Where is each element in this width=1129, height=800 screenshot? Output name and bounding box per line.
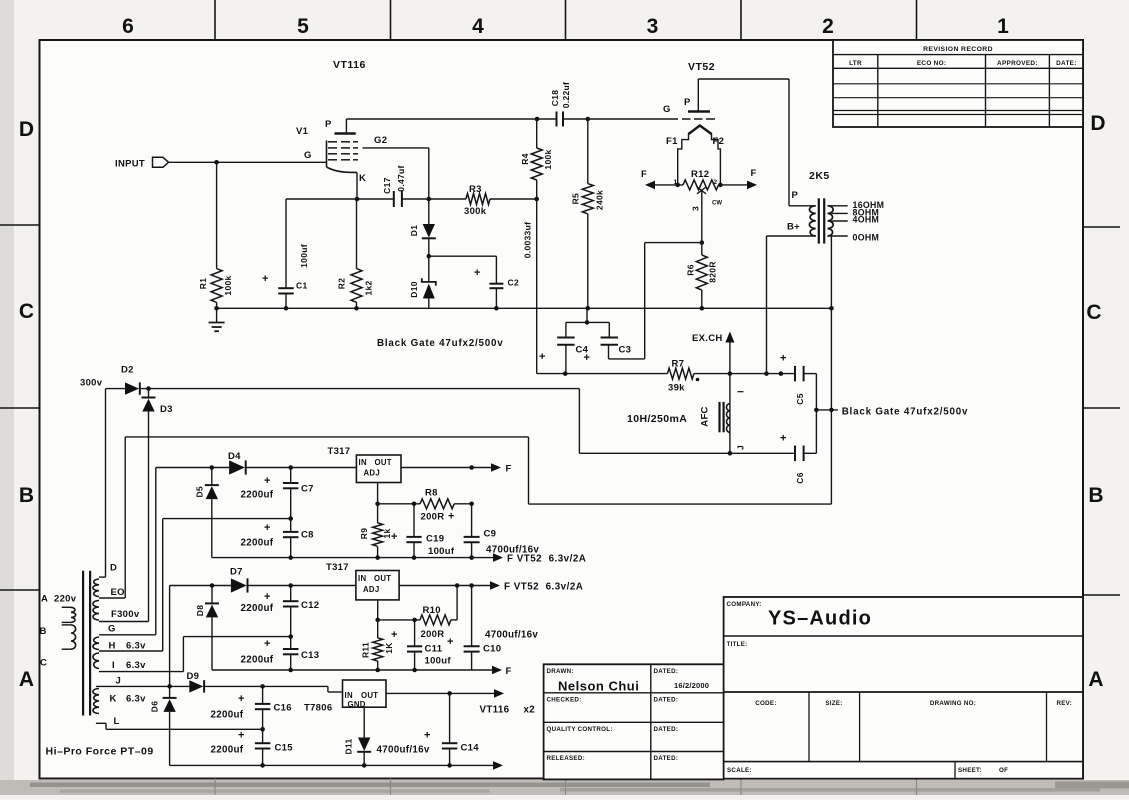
wire row2 bottom	[212, 669, 492, 671]
svg-text:5: 5	[297, 15, 309, 38]
wire D7 to T317 IN	[248, 585, 356, 587]
svg-text:300k: 300k	[464, 206, 487, 217]
tube V1 grid dashes	[328, 141, 337, 143]
svg-text:F: F	[751, 168, 757, 179]
diode D8	[211, 586, 213, 604]
tube VT52 grid dashes	[682, 118, 691, 120]
wire R4 down to B+ node	[536, 199, 538, 374]
wire B+ node y373	[537, 373, 668, 375]
svg-text:100k: 100k	[543, 149, 553, 169]
svg-text:0.22uf: 0.22uf	[561, 82, 571, 108]
svg-text:F: F	[506, 464, 512, 475]
diode D5	[211, 468, 213, 486]
capacitor C15	[262, 729, 264, 743]
wire GND pin	[363, 707, 365, 737]
capacitor C10	[471, 586, 473, 647]
svg-text:J: J	[116, 676, 122, 687]
tube VT52 filament	[689, 126, 712, 135]
svg-text:QUALITY CONTROL:: QUALITY CONTROL:	[547, 726, 613, 733]
svg-text:F VT52 6.3v/2A: F VT52 6.3v/2A	[504, 582, 583, 593]
wire VT52 filament legs	[678, 133, 689, 185]
resistor R4	[531, 148, 542, 180]
svg-text:C9: C9	[484, 529, 497, 540]
wire row3 feed from J	[96, 685, 189, 687]
svg-text:REVISION RECORD: REVISION RECORD	[923, 46, 993, 53]
svg-text:G: G	[663, 104, 671, 115]
transformer PT-09 secondary winding EO-F	[93, 601, 99, 621]
capacitor C19	[413, 504, 415, 537]
svg-text:R8: R8	[425, 488, 438, 499]
svg-text:2200uf: 2200uf	[241, 603, 274, 614]
capacitor C14	[449, 693, 451, 743]
svg-text:R2: R2	[336, 278, 346, 289]
svg-text:4700uf/16v: 4700uf/16v	[485, 630, 538, 641]
capacitor C5	[794, 366, 796, 382]
svg-text:R4: R4	[520, 153, 530, 164]
svg-text:+: +	[474, 267, 480, 279]
svg-text:+: +	[238, 730, 244, 742]
tube V1 plate	[335, 132, 356, 135]
svg-text:+: +	[780, 353, 786, 365]
wire R7 to C5	[694, 373, 795, 375]
svg-text:REV:: REV:	[1056, 700, 1072, 707]
svg-text:RELEASED:: RELEASED:	[547, 755, 585, 762]
svg-text:C8: C8	[301, 530, 314, 541]
svg-text:VT116: VT116	[333, 59, 366, 71]
svg-text:0.47uf: 0.47uf	[396, 165, 406, 191]
svg-text:C: C	[40, 658, 47, 669]
svg-text:P: P	[684, 97, 691, 108]
wire common to C5C6 junction y504	[529, 503, 832, 505]
wire V1 plate to C18 (top wire)	[346, 118, 556, 120]
svg-text:APPROVED:: APPROVED:	[997, 60, 1038, 67]
svg-text:0OHM: 0OHM	[853, 233, 880, 243]
svg-text:240k: 240k	[594, 190, 604, 210]
svg-text:DRAWING NO:: DRAWING NO:	[930, 700, 976, 707]
wire 7806 out to VT116	[386, 692, 494, 694]
svg-text:SIZE:: SIZE:	[825, 700, 842, 707]
svg-text:C17: C17	[382, 177, 392, 194]
svg-text:D5: D5	[195, 486, 205, 497]
svg-text:T317: T317	[326, 562, 349, 573]
diode D2	[106, 388, 126, 390]
svg-text:AFC: AFC	[700, 406, 711, 426]
svg-text:B: B	[19, 484, 34, 507]
wire row1 feed	[156, 467, 229, 469]
wire C18 to VT52 grid	[563, 118, 678, 120]
svg-text:G: G	[108, 624, 116, 635]
tube VT52 plate	[688, 110, 710, 113]
svg-text:D1: D1	[409, 225, 419, 236]
svg-text:C11: C11	[425, 644, 443, 655]
svg-text:DATED:: DATED:	[654, 668, 679, 675]
capacitor C18	[556, 112, 558, 127]
capacitor C2	[489, 283, 503, 285]
svg-text:+: +	[424, 730, 430, 742]
svg-text:16/2/2000: 16/2/2000	[674, 681, 709, 690]
node Black Gate callout	[816, 409, 838, 411]
capacitor C3	[608, 322, 610, 337]
regulator U2 T317	[356, 571, 399, 600]
svg-text:200R: 200R	[421, 629, 445, 640]
svg-text:1K: 1K	[384, 642, 394, 654]
ground at R1	[214, 306, 219, 311]
svg-text:SHEET:: SHEET:	[958, 767, 982, 774]
svg-text:+: +	[264, 522, 270, 534]
wire 300v return y453	[579, 452, 795, 454]
svg-text:R5: R5	[571, 193, 581, 204]
wire R5 to C4 C3 bracket	[586, 308, 588, 322]
svg-text:Black Gate 47ufx2/500v: Black Gate 47ufx2/500v	[842, 406, 969, 417]
resistor R11	[377, 620, 379, 638]
wire T317 out to F	[401, 467, 491, 469]
svg-text:K: K	[110, 694, 117, 705]
wire C17 to R3	[402, 198, 466, 200]
svg-text:D3: D3	[160, 404, 173, 415]
capacitor C11	[414, 620, 416, 646]
resistor R10	[420, 615, 451, 625]
resistor R7	[668, 368, 694, 379]
svg-text:C5: C5	[795, 393, 805, 404]
svg-text:V1: V1	[296, 126, 309, 137]
svg-text:4: 4	[472, 15, 484, 38]
wire C6 right	[804, 452, 817, 454]
svg-text:1: 1	[997, 15, 1009, 38]
capacitor C1	[285, 199, 287, 288]
svg-text:P: P	[325, 119, 332, 130]
svg-text:220v: 220v	[54, 594, 77, 605]
svg-text:C18: C18	[550, 90, 560, 107]
transformer 2K5 primary	[809, 206, 815, 236]
svg-text:D9: D9	[187, 671, 200, 682]
svg-text:SCALE:: SCALE:	[727, 767, 752, 774]
svg-text:+: +	[264, 638, 270, 650]
resistor R5	[587, 119, 589, 184]
svg-text:G: G	[304, 150, 312, 161]
svg-text:D2: D2	[121, 365, 134, 376]
svg-text:F300v: F300v	[111, 609, 140, 620]
wire D9 to 7806	[204, 685, 328, 687]
svg-text:F VT52 6.3v/2A: F VT52 6.3v/2A	[507, 554, 586, 565]
svg-text:A: A	[41, 594, 48, 605]
diode D6	[169, 686, 171, 698]
svg-text:4700uf/16v: 4700uf/16v	[377, 745, 430, 756]
capacitor C8	[290, 519, 292, 532]
svg-text:DATED:: DATED:	[654, 755, 679, 762]
wire ADJ node	[377, 483, 379, 504]
wire G2 screen	[362, 147, 428, 149]
svg-text:+: +	[539, 351, 545, 363]
svg-text:100uf: 100uf	[425, 656, 452, 667]
resistor R9	[373, 523, 383, 546]
svg-text:D6: D6	[149, 701, 159, 712]
svg-text:39k: 39k	[668, 383, 685, 394]
wire VT52 plate to transformer	[698, 78, 789, 80]
svg-text:IN: IN	[358, 574, 366, 583]
svg-text:H: H	[109, 641, 116, 652]
svg-text:D10: D10	[409, 281, 419, 298]
wire EO common feed	[124, 437, 126, 598]
svg-text:GND: GND	[348, 700, 366, 709]
wire row2 feed	[170, 585, 231, 587]
svg-text:F1: F1	[666, 136, 678, 147]
svg-text:Hi–Pro Force PT–09: Hi–Pro Force PT–09	[46, 746, 154, 758]
svg-text:200R: 200R	[421, 512, 445, 523]
diode D3	[148, 389, 150, 398]
wire common rail y308	[217, 307, 832, 309]
svg-text:R11: R11	[360, 642, 370, 658]
svg-text:C3: C3	[619, 345, 632, 356]
capacitor C12	[290, 586, 292, 602]
svg-text:D: D	[19, 118, 34, 141]
svg-text:OUT: OUT	[361, 691, 378, 700]
transformer PT-09 secondary winding G-H	[93, 637, 99, 650]
wire cathode bias y199	[286, 198, 394, 200]
svg-text:DATED:: DATED:	[654, 726, 679, 733]
capacitor C9	[471, 504, 473, 537]
wire T317-2 out	[399, 585, 490, 587]
svg-text:+: +	[264, 591, 270, 603]
svg-text:+: +	[391, 531, 397, 543]
svg-text:820R: 820R	[708, 261, 718, 283]
title block drawn/dated table Nelson Chui	[544, 664, 724, 779]
svg-text:P: P	[792, 190, 799, 201]
svg-text:B: B	[1088, 484, 1103, 507]
resistor R2	[356, 199, 358, 269]
svg-text:T317: T317	[328, 446, 351, 457]
transformer 2K5 secondary	[828, 206, 834, 236]
svg-text:2: 2	[714, 179, 718, 186]
svg-text:L: L	[114, 716, 120, 727]
choke AFC	[729, 374, 731, 454]
svg-text:R3: R3	[469, 184, 482, 195]
svg-text:INPUT: INPUT	[115, 159, 145, 170]
svg-text:ADJ: ADJ	[364, 469, 381, 478]
wire row2b feed C13	[183, 636, 290, 638]
svg-text:DATE:: DATE:	[1056, 60, 1077, 67]
svg-text:OUT: OUT	[374, 574, 391, 583]
wire R12 pin2 to F arrow	[719, 184, 749, 186]
svg-text:IN: IN	[359, 458, 367, 467]
svg-text:VT52: VT52	[688, 61, 715, 73]
transformer PT-09 secondary winding J-L	[93, 689, 99, 714]
regulator U1 T317	[356, 455, 401, 483]
svg-text:2200uf: 2200uf	[241, 490, 274, 501]
svg-text:6.3v: 6.3v	[126, 660, 146, 671]
svg-text:D4: D4	[228, 451, 241, 462]
diode D1	[423, 224, 435, 238]
svg-text:CHECKED:: CHECKED:	[547, 697, 582, 704]
revision record table	[833, 40, 1083, 127]
svg-text:C13: C13	[301, 650, 319, 661]
svg-text:Black Gate 47ufx2/500v: Black Gate 47ufx2/500v	[377, 338, 504, 349]
svg-text:100uf: 100uf	[428, 546, 455, 557]
svg-text:+: +	[391, 629, 397, 641]
svg-text:DRAWN:: DRAWN:	[547, 668, 574, 675]
wire 0OHM tap down	[830, 236, 832, 504]
svg-text:+: +	[780, 433, 786, 445]
wire node to C2	[429, 255, 497, 257]
svg-text:ECO NO:: ECO NO:	[917, 60, 946, 67]
svg-text:6.3v: 6.3v	[126, 694, 146, 705]
wire R12 pin1 to F arrow	[647, 184, 683, 186]
tube V1 envelope	[326, 141, 328, 168]
svg-text:3: 3	[690, 206, 700, 211]
svg-text:+: +	[262, 273, 268, 285]
svg-text:YS–Audio: YS–Audio	[768, 608, 872, 630]
capacitor C6	[794, 446, 796, 462]
svg-text:DATED:: DATED:	[654, 697, 679, 704]
svg-text:T7806: T7806	[304, 703, 332, 714]
svg-text:J: J	[735, 445, 745, 450]
svg-text:R6: R6	[685, 264, 695, 275]
svg-text:B: B	[40, 626, 47, 637]
svg-text:+: +	[584, 352, 590, 364]
svg-text:OUT: OUT	[375, 458, 392, 467]
svg-text:D11: D11	[343, 738, 353, 754]
R12 wiper	[697, 187, 706, 194]
wire row1 bottom	[212, 557, 493, 559]
svg-text:G2: G2	[374, 135, 387, 146]
svg-text:C1: C1	[296, 281, 307, 291]
resistor R3	[466, 194, 490, 205]
capacitor C16	[262, 686, 264, 704]
svg-text:C: C	[1086, 301, 1101, 324]
svg-text:CW: CW	[712, 201, 722, 207]
svg-text:F: F	[641, 169, 647, 180]
svg-text:2200uf: 2200uf	[211, 710, 244, 721]
svg-text:F: F	[506, 666, 512, 677]
regulator U3 T7806	[343, 680, 387, 707]
capacitor C7	[290, 468, 292, 484]
wire D2 to EX wire	[140, 388, 580, 390]
transformer PT-09 secondary winding H-I	[93, 653, 99, 669]
svg-text:D8: D8	[195, 605, 205, 616]
svg-text:+: +	[448, 511, 454, 523]
svg-text:+: +	[238, 693, 244, 705]
svg-text:D7: D7	[230, 567, 243, 578]
wire ADJ2 node	[377, 600, 379, 620]
svg-text:2200uf: 2200uf	[241, 655, 274, 666]
capacitor C4	[565, 322, 567, 337]
svg-text:VT116: VT116	[480, 705, 510, 716]
resistor R1	[216, 162, 218, 268]
svg-text:EX.CH: EX.CH	[692, 333, 723, 344]
svg-text:C14: C14	[461, 743, 480, 754]
capacitor C17	[393, 191, 395, 207]
wire R3 to R4	[490, 198, 537, 200]
wire row1b feed C8	[163, 518, 291, 520]
svg-text:R10: R10	[423, 605, 441, 616]
svg-text:10H/250mA: 10H/250mA	[627, 413, 687, 425]
svg-text:TITLE:: TITLE:	[727, 641, 748, 648]
resistor R8	[420, 499, 454, 509]
svg-text:100k: 100k	[223, 275, 233, 295]
svg-text:C7: C7	[301, 484, 314, 495]
svg-text:D: D	[1090, 112, 1105, 135]
wire C5 right	[804, 373, 817, 375]
svg-text:I: I	[112, 660, 115, 671]
wire D1 to D10 node	[428, 239, 430, 256]
transformer PT-09 primary	[62, 606, 71, 608]
svg-text:2K5: 2K5	[809, 170, 830, 182]
resistor R6	[701, 243, 703, 255]
svg-text:CODE:: CODE:	[755, 700, 776, 707]
svg-text:C6: C6	[795, 472, 805, 483]
svg-text:OF: OF	[999, 767, 1008, 774]
svg-text:6.3v: 6.3v	[126, 641, 146, 652]
diode D11	[358, 738, 370, 752]
svg-text:+: +	[264, 475, 270, 487]
wire row3 bottom rail	[170, 764, 493, 766]
svg-text:C2: C2	[508, 278, 519, 288]
wire B+ lead down	[766, 236, 768, 374]
svg-text:2200uf: 2200uf	[241, 538, 274, 549]
svg-text:C10: C10	[483, 644, 501, 655]
svg-text:300v: 300v	[80, 378, 103, 389]
svg-text:2200uf: 2200uf	[211, 745, 244, 756]
svg-text:COMPANY:: COMPANY:	[727, 601, 762, 608]
wire row3b from L	[106, 728, 263, 730]
svg-text:4OHM: 4OHM	[853, 215, 880, 225]
svg-text:1k2: 1k2	[363, 280, 373, 295]
svg-text:6: 6	[122, 15, 134, 38]
svg-text:B+: B+	[787, 222, 800, 233]
diode D9	[189, 680, 203, 692]
node INPUT terminal	[153, 157, 169, 167]
svg-text:R7: R7	[672, 359, 685, 370]
transformer PT-09 secondary tap G	[99, 634, 156, 636]
svg-text:A: A	[19, 668, 34, 691]
svg-text:2: 2	[822, 15, 834, 38]
svg-text:A: A	[1088, 668, 1103, 691]
svg-text:3: 3	[647, 15, 659, 38]
svg-text:C19: C19	[426, 534, 444, 545]
diode D4	[229, 460, 245, 474]
svg-text:Nelson Chui: Nelson Chui	[558, 679, 639, 694]
svg-text:I: I	[735, 390, 745, 393]
svg-text:x2: x2	[524, 705, 536, 716]
svg-text:R12: R12	[691, 169, 709, 180]
svg-text:K: K	[359, 173, 366, 184]
wire 300v tap feed	[105, 389, 107, 577]
capacitor C13	[290, 637, 292, 649]
transformer PT-09 secondary winding D-EO	[99, 576, 106, 578]
transformer PT-09 core	[82, 571, 84, 716]
svg-text:0.0033uf: 0.0033uf	[523, 222, 533, 258]
svg-text:R9: R9	[359, 528, 369, 539]
title block company YS-Audio	[724, 597, 1083, 779]
svg-text:C12: C12	[301, 600, 319, 611]
svg-text:D: D	[110, 563, 117, 574]
svg-text:100uf: 100uf	[299, 244, 309, 268]
svg-text:ADJ: ADJ	[363, 585, 380, 594]
svg-text:+: +	[447, 636, 453, 648]
transformer 2K5 core	[818, 198, 820, 243]
wire wiper to C3 loop	[645, 242, 702, 244]
diode D10 zener	[428, 256, 430, 283]
svg-text:C15: C15	[275, 743, 294, 754]
wire V1 cathode K	[356, 172, 358, 199]
svg-text:LTR: LTR	[849, 60, 862, 67]
svg-text:C: C	[19, 300, 34, 323]
svg-text:C16: C16	[274, 703, 292, 714]
wire input to V1 grid	[169, 161, 327, 163]
potentiometer R12	[683, 180, 719, 190]
svg-text:IN: IN	[345, 691, 353, 700]
wire D4 to T317 IN	[246, 467, 357, 469]
svg-text:R1: R1	[198, 278, 208, 289]
